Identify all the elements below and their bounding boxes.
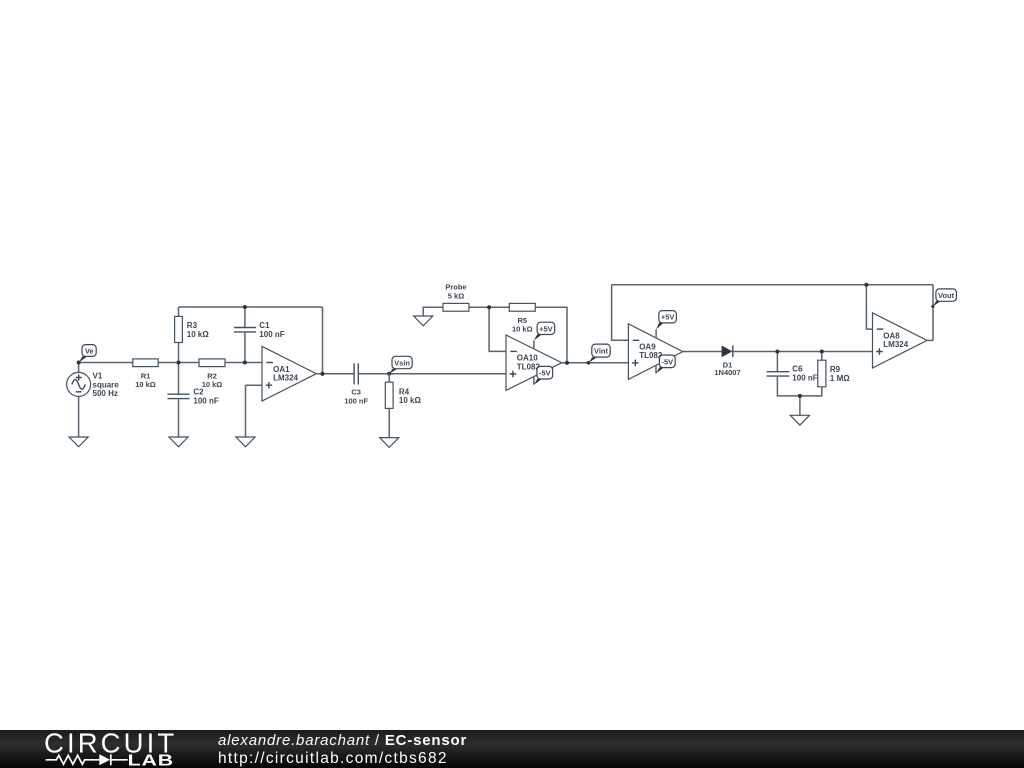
op-amp OA8: [873, 313, 928, 368]
wire R2 to OA1 inverting input: [225, 362, 262, 364]
svg-text:+5V: +5V: [539, 324, 553, 333]
flag -5V on OA10: [534, 366, 553, 384]
wire V1 stem bottom: [78, 396, 80, 437]
resistor Probe: [443, 283, 469, 312]
wire junction up to R3: [178, 343, 180, 363]
resistor R9: [818, 360, 850, 387]
resistor R1: [133, 359, 158, 389]
flag Vout: [933, 289, 957, 306]
svg-text:R1: R1: [141, 371, 151, 380]
svg-text:-5V: -5V: [539, 369, 551, 378]
node dot feedback bus: [864, 283, 868, 287]
wire C6 top lead: [776, 352, 778, 372]
node dot Vsin: [387, 372, 391, 376]
wire top feedback bus: [612, 284, 933, 286]
wire R3 top to feedback bus: [178, 307, 180, 316]
wire probe ground stem: [423, 307, 443, 316]
wire C1 bottom lead: [244, 332, 246, 363]
node dot C1 top: [243, 305, 247, 309]
svg-text:10 kΩ: 10 kΩ: [202, 380, 223, 389]
svg-text:R3: R3: [187, 321, 198, 330]
svg-text:10 kΩ: 10 kΩ: [135, 380, 156, 389]
CircuitLab logo resistor-diode drawing: [46, 754, 128, 765]
flag +5V on OA10: [534, 322, 555, 348]
wire Vsin node down to R4: [388, 374, 390, 382]
wire R9 top lead: [821, 352, 823, 361]
op-amp OA1: [262, 346, 316, 401]
ground under R4: [380, 438, 399, 448]
voltage source V1: [67, 371, 120, 398]
node dot main junction: [177, 361, 181, 365]
wire C1 top lead: [244, 307, 246, 328]
ground under OA1 noninverting input: [236, 437, 255, 447]
wire Probe to junction: [469, 306, 509, 308]
wire OA9 output to D1: [683, 351, 722, 353]
node dot input: [77, 361, 81, 365]
svg-text:100 nF: 100 nF: [193, 397, 218, 406]
svg-text:R4: R4: [399, 387, 410, 396]
wire OA1 output: [316, 373, 354, 375]
wire V1 stem top: [78, 363, 80, 373]
op-amp OA10: [506, 335, 562, 390]
wire C3 to OA10 noninverting input: [358, 373, 506, 375]
svg-text:Vsin: Vsin: [394, 358, 410, 367]
node dot OA10 feedback: [565, 361, 569, 365]
svg-text:R9: R9: [830, 365, 841, 374]
svg-text:500 Hz: 500 Hz: [93, 389, 118, 398]
node dot OA1 output: [320, 372, 324, 376]
svg-text:R2: R2: [207, 371, 217, 380]
ground under C6 R9: [790, 415, 809, 425]
op-amp OA9: [628, 324, 682, 380]
svg-text:100 nF: 100 nF: [792, 373, 817, 382]
flag +5V on OA9: [656, 311, 676, 338]
svg-text:C6: C6: [792, 365, 803, 374]
capacitor C2: [168, 388, 219, 406]
wire R1 to junction: [158, 362, 199, 364]
wire junction down to OA10 inverting: [489, 307, 506, 351]
svg-text:5 kΩ: 5 kΩ: [448, 291, 464, 300]
svg-text:+5V: +5V: [661, 313, 675, 322]
wire C6 bottom lead: [777, 376, 800, 396]
svg-text:V1: V1: [93, 371, 103, 380]
wire feedback top bus stage1: [179, 306, 323, 308]
svg-text:1 MΩ: 1 MΩ: [830, 374, 850, 383]
node dot Vout: [931, 305, 934, 308]
capacitor C1: [234, 321, 285, 339]
wire C2 bottom lead: [178, 399, 180, 437]
svg-text:Ve: Ve: [85, 346, 94, 355]
capacitor C3: [344, 363, 368, 405]
svg-text:10 kΩ: 10 kΩ: [187, 330, 210, 339]
wire ground stem below C6 R9: [799, 396, 801, 415]
svg-text:100 nF: 100 nF: [344, 396, 368, 405]
svg-text:-5V: -5V: [661, 357, 673, 366]
flag Ve: [79, 345, 97, 363]
wire OA1 noninverting to ground: [245, 385, 247, 437]
svg-text:Probe: Probe: [445, 283, 466, 292]
capacitor C6: [767, 365, 818, 383]
resistor R4: [385, 382, 421, 408]
svg-text:10 kΩ: 10 kΩ: [512, 325, 533, 334]
svg-text:LM324: LM324: [273, 373, 298, 382]
svg-text:100 nF: 100 nF: [259, 330, 284, 339]
resistor R5: [509, 303, 535, 333]
node dot Vint: [587, 361, 591, 365]
svg-text:C3: C3: [351, 388, 361, 397]
svg-text:R5: R5: [518, 316, 528, 325]
node dot R9 junction: [820, 350, 824, 354]
flag Vsin: [389, 356, 412, 374]
wire OA1 noninverting input: [246, 384, 263, 386]
svg-text:LAB: LAB: [128, 751, 174, 768]
wire D1 to OA8 noninverting input: [734, 351, 873, 353]
resistor R3: [175, 316, 210, 342]
svg-text:C1: C1: [259, 321, 270, 330]
svg-text:Vint: Vint: [594, 347, 609, 356]
resistor R2: [199, 359, 225, 389]
svg-text:Vout: Vout: [938, 291, 955, 300]
wire OA8 inverting branch: [866, 285, 872, 329]
flag Vint: [588, 344, 610, 363]
svg-text:1N4007: 1N4007: [714, 368, 740, 377]
node dot C1 bottom: [243, 361, 247, 365]
node dot bottom junction: [798, 394, 802, 398]
wire OA8 output: [927, 339, 933, 341]
wire R5 to feedback vertical: [535, 307, 567, 363]
flag -5V on OA9: [656, 355, 675, 373]
wire R9 bottom lead: [800, 387, 822, 396]
node dot probe junction: [487, 305, 491, 309]
wire OA8 output feedback vertical: [932, 285, 934, 341]
svg-text:C2: C2: [193, 388, 204, 397]
wire OA10 output: [562, 362, 629, 364]
wire junction down to C2: [178, 363, 180, 395]
svg-text:square: square: [93, 380, 120, 389]
wire OA9 inverting branch: [612, 285, 629, 341]
ground under V1: [69, 437, 88, 447]
svg-text:10 kΩ: 10 kΩ: [399, 396, 422, 405]
ground under C2: [169, 437, 188, 447]
diode D1: [714, 346, 740, 378]
wire input node to R1: [79, 362, 133, 364]
wire R4 bottom lead: [388, 408, 390, 437]
wire OA1 feedback vertical: [322, 307, 324, 374]
ground probe branch: [414, 316, 433, 326]
node dot D1-C6 junction: [775, 350, 779, 354]
svg-text:LM324: LM324: [883, 340, 908, 349]
